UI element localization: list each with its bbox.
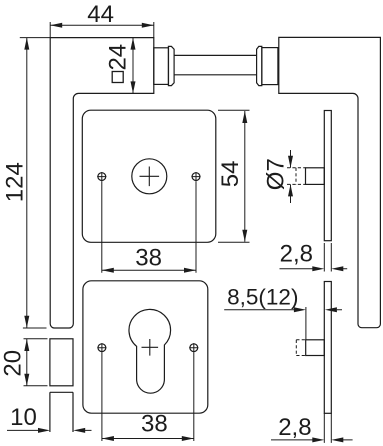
svg-text:54: 54 xyxy=(217,161,244,188)
upper rose plate xyxy=(82,110,216,242)
arrow 10 right-pointing xyxy=(38,428,50,433)
dim line d7 xyxy=(290,150,292,203)
dim line lower 38 xyxy=(102,438,194,440)
svg-text:44: 44 xyxy=(87,1,114,28)
lower rose center cross xyxy=(142,339,159,356)
lower side strip (rose profile) xyxy=(324,282,331,414)
arrow 38 lower right xyxy=(182,436,194,441)
dim sq24 line xyxy=(132,38,134,94)
arrow 10 left-pointing xyxy=(73,428,85,433)
lower rose plate xyxy=(83,281,208,413)
dim upper 2,8 xyxy=(280,268,348,270)
dim 10 line xyxy=(7,429,92,431)
upper rose center cross xyxy=(140,167,160,187)
svg-text:Ø7: Ø7 xyxy=(262,158,289,190)
arrow 8,5 left-pointing xyxy=(325,307,337,312)
extension lines upper 38 dim xyxy=(102,181,196,273)
arrow 8,5 right-pointing xyxy=(294,307,306,312)
arrow 2,8 upper right xyxy=(331,266,343,271)
arrow 38 upper left xyxy=(102,268,114,273)
upper cylinder solid xyxy=(306,168,325,185)
arrow 38 lower left xyxy=(102,436,114,441)
left handle L-profile outline xyxy=(50,38,154,328)
svg-text:8,5(12): 8,5(12) xyxy=(227,284,298,309)
arrow d7 down xyxy=(288,156,293,168)
dim 54 line xyxy=(244,111,246,242)
svg-text:10: 10 xyxy=(10,404,37,431)
lower rose keyhole europrofile xyxy=(129,309,171,393)
arrow d7 up xyxy=(288,184,293,196)
bar C grip continuation xyxy=(50,392,73,432)
dim 124 line xyxy=(26,38,28,328)
arrow 44 right xyxy=(142,23,154,28)
dim upper 2,8 extension lines xyxy=(324,243,331,272)
lower cylinder dashed variant xyxy=(296,340,305,356)
lower rose right screw hole xyxy=(190,344,198,352)
leader 8,5(12) xyxy=(224,307,342,340)
arrow 38 upper right xyxy=(184,268,196,273)
rect B grip section xyxy=(50,339,73,386)
dim 124 extension lines xyxy=(20,38,50,328)
arrow 54 up xyxy=(242,111,247,123)
dim 20 line xyxy=(26,339,28,386)
left handle neck xyxy=(154,48,169,85)
dim 44 extension lines xyxy=(50,22,154,38)
arrow 2,8 lower right xyxy=(331,437,343,442)
arrow 54 down xyxy=(242,230,247,242)
arrow sq24 up xyxy=(131,38,136,50)
right handle collar ring xyxy=(257,46,262,85)
svg-text:20: 20 xyxy=(0,350,27,377)
upper cylinder dashed variant xyxy=(287,168,306,185)
upper rose left screw hole xyxy=(98,173,106,181)
svg-text:38: 38 xyxy=(135,245,162,272)
dim lower 2,8 extension lines xyxy=(324,413,331,443)
lower cylinder solid xyxy=(306,340,325,356)
left handle collar ring xyxy=(168,46,174,85)
upper rose right screw hole xyxy=(192,173,200,181)
lower rose left screw hole xyxy=(98,344,106,352)
arrow 2,8 upper left xyxy=(312,266,324,271)
dim lower 2,8 xyxy=(271,439,353,441)
arrow 124 down xyxy=(24,316,29,328)
dim line upper 38 xyxy=(102,269,196,271)
arrow 124 up xyxy=(24,38,29,50)
arrow 2,8 lower left xyxy=(312,437,324,442)
arrow sq24 down xyxy=(131,81,136,93)
svg-text:24: 24 xyxy=(105,44,132,71)
spindle xyxy=(174,55,257,74)
right handle neck xyxy=(262,48,278,85)
right handle L-profile outline xyxy=(279,37,381,327)
dim 20 extension ticks xyxy=(24,339,48,386)
svg-text:2,8: 2,8 xyxy=(280,241,313,268)
arrow 44 left xyxy=(50,23,62,28)
arrow 20 down xyxy=(24,374,29,386)
arrow 20 up xyxy=(24,339,29,351)
svg-text:38: 38 xyxy=(141,410,168,437)
svg-text:124: 124 xyxy=(1,162,28,202)
dim 54 extension lines xyxy=(218,110,250,242)
svg-text:2,8: 2,8 xyxy=(278,414,311,441)
upper side strip (rose profile) xyxy=(324,111,331,241)
dim 44 line xyxy=(50,24,154,26)
upper rose center circle xyxy=(132,159,167,194)
extension lines lower 38 dim xyxy=(102,352,194,441)
